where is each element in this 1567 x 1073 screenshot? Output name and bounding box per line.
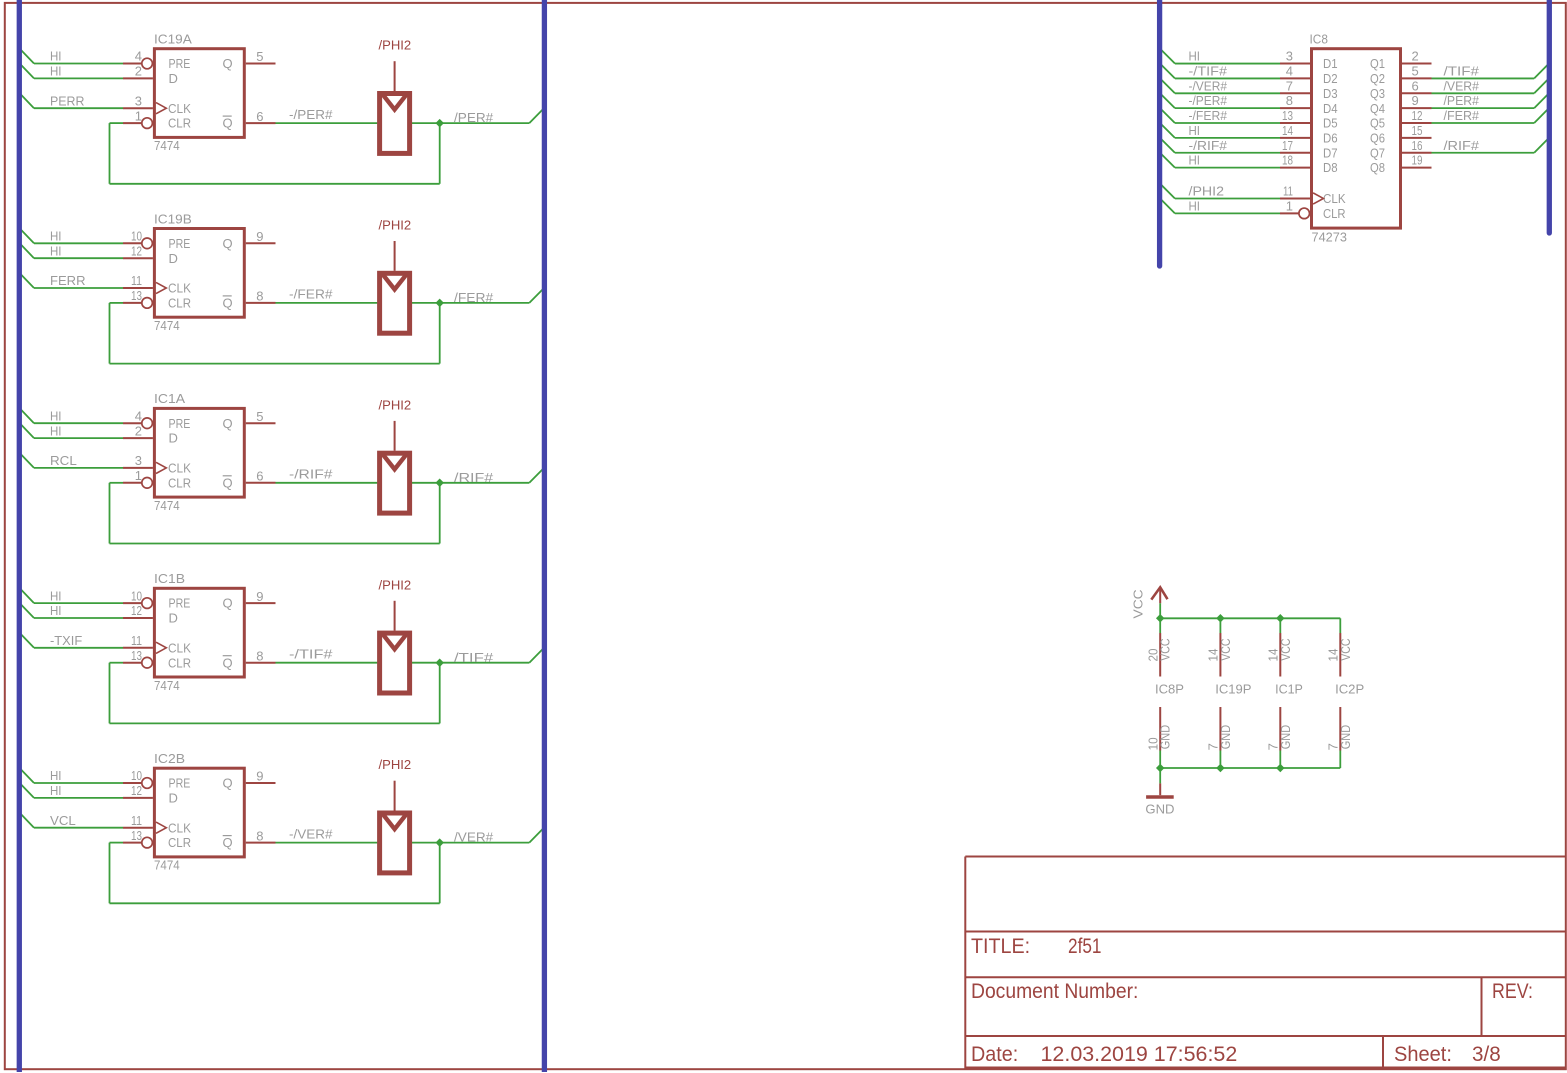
svg-text:CLK: CLK	[1323, 191, 1346, 206]
svg-text:/VER#: /VER#	[1444, 78, 1480, 93]
svg-text:/RIF#: /RIF#	[454, 470, 494, 485]
svg-text:15: 15	[1412, 123, 1423, 138]
svg-text:11: 11	[1283, 183, 1293, 198]
svg-text:12.03.2019 17:56:52: 12.03.2019 17:56:52	[1041, 1043, 1238, 1066]
svg-text:5: 5	[1412, 63, 1419, 78]
svg-text:/FER#: /FER#	[454, 290, 494, 305]
svg-text:16: 16	[1412, 138, 1423, 153]
svg-text:D8: D8	[1323, 160, 1338, 175]
svg-text:3: 3	[135, 93, 142, 108]
svg-text:-/FER#: -/FER#	[1189, 108, 1228, 123]
svg-text:PRE: PRE	[169, 416, 191, 431]
svg-text:6: 6	[256, 469, 263, 484]
svg-text:1: 1	[1286, 198, 1293, 213]
svg-text:14: 14	[1282, 123, 1293, 138]
svg-text:HI: HI	[50, 64, 62, 79]
svg-text:13: 13	[131, 288, 142, 303]
svg-text:1: 1	[135, 108, 142, 123]
svg-text:HI: HI	[50, 49, 62, 64]
svg-text:REV:: REV:	[1492, 980, 1533, 1003]
svg-text:GND: GND	[1158, 725, 1173, 749]
svg-text:/FER#: /FER#	[1444, 108, 1480, 123]
svg-text:Q: Q	[223, 655, 233, 670]
svg-text:HI: HI	[50, 768, 62, 783]
svg-text:13: 13	[131, 828, 142, 843]
svg-text:Q7: Q7	[1370, 145, 1385, 160]
svg-text:IC19A: IC19A	[154, 32, 192, 47]
svg-text:Q6: Q6	[1370, 131, 1385, 146]
svg-text:9: 9	[256, 769, 263, 784]
svg-text:13: 13	[1282, 108, 1293, 123]
svg-text:Q1: Q1	[1370, 56, 1385, 71]
svg-text:Q: Q	[223, 776, 233, 791]
svg-text:-/FER#: -/FER#	[289, 287, 333, 302]
svg-text:13: 13	[131, 648, 142, 663]
svg-text:CLR: CLR	[168, 475, 191, 490]
svg-text:HI: HI	[1189, 198, 1201, 213]
svg-text:10: 10	[131, 229, 142, 244]
svg-text:-/VER#: -/VER#	[289, 826, 333, 841]
svg-text:GND: GND	[1278, 725, 1293, 749]
svg-text:Document Number:: Document Number:	[971, 980, 1138, 1003]
svg-text:HI: HI	[1189, 153, 1201, 168]
svg-text:D: D	[169, 431, 178, 446]
svg-text:IC1A: IC1A	[154, 391, 185, 406]
svg-text:/VER#: /VER#	[454, 830, 494, 845]
svg-text:D7: D7	[1323, 145, 1338, 160]
svg-text:10: 10	[131, 588, 142, 603]
svg-text:6: 6	[1412, 78, 1419, 93]
svg-text:HI: HI	[50, 588, 62, 603]
svg-text:TITLE:: TITLE:	[971, 935, 1030, 958]
svg-text:8: 8	[256, 828, 263, 843]
svg-text:IC19P: IC19P	[1215, 682, 1251, 697]
svg-text:HI: HI	[50, 243, 62, 258]
svg-text:IC8: IC8	[1310, 32, 1328, 47]
svg-text:CLK: CLK	[168, 281, 191, 296]
svg-text:D: D	[169, 791, 178, 806]
svg-text:HI: HI	[50, 783, 62, 798]
svg-text:CLK: CLK	[168, 820, 191, 835]
svg-text:74273: 74273	[1312, 229, 1347, 244]
svg-text:7: 7	[1286, 78, 1293, 93]
svg-text:FERR: FERR	[50, 273, 86, 288]
svg-text:/TIF#: /TIF#	[1444, 63, 1480, 78]
svg-text:8: 8	[256, 648, 263, 663]
svg-text:/PHI2: /PHI2	[379, 218, 412, 233]
svg-text:VCC: VCC	[1338, 639, 1353, 661]
svg-text:17: 17	[1282, 138, 1293, 153]
svg-text:9: 9	[256, 229, 263, 244]
svg-text:/TIF#: /TIF#	[454, 650, 494, 665]
svg-text:/PHI2: /PHI2	[1189, 183, 1225, 198]
svg-text:Q8: Q8	[1370, 160, 1385, 175]
svg-text:-/PER#: -/PER#	[1189, 93, 1228, 108]
svg-text:D2: D2	[1323, 71, 1338, 86]
svg-text:/PHI2: /PHI2	[379, 757, 412, 772]
svg-text:4: 4	[135, 49, 142, 64]
svg-text:Q: Q	[223, 56, 233, 71]
svg-text:CLR: CLR	[1323, 206, 1346, 221]
svg-text:18: 18	[1282, 153, 1293, 168]
svg-text:CLR: CLR	[168, 655, 191, 670]
svg-text:VCC: VCC	[1278, 639, 1293, 661]
svg-text:2: 2	[135, 64, 142, 79]
svg-text:Q: Q	[223, 116, 233, 131]
svg-text:Q: Q	[223, 236, 233, 251]
svg-text:11: 11	[131, 273, 142, 288]
svg-text:Q: Q	[223, 475, 233, 490]
svg-text:-/VER#: -/VER#	[1189, 78, 1228, 93]
svg-text:HI: HI	[1189, 49, 1201, 64]
svg-text:PRE: PRE	[169, 56, 191, 71]
svg-text:-/TIF#: -/TIF#	[289, 646, 333, 661]
svg-text:-TXIF: -TXIF	[50, 633, 82, 648]
svg-text:Q5: Q5	[1370, 116, 1385, 131]
svg-text:IC19B: IC19B	[154, 211, 192, 226]
svg-text:IC2B: IC2B	[154, 751, 185, 766]
svg-text:8: 8	[1286, 93, 1293, 108]
svg-text:D6: D6	[1323, 131, 1338, 146]
svg-text:12: 12	[131, 783, 142, 798]
svg-text:HI: HI	[50, 423, 62, 438]
svg-text:CLR: CLR	[168, 835, 191, 850]
svg-text:VCC: VCC	[1218, 639, 1233, 661]
svg-text:D: D	[169, 71, 178, 86]
svg-text:Q: Q	[223, 596, 233, 611]
svg-text:PRE: PRE	[169, 596, 191, 611]
svg-text:5: 5	[256, 409, 263, 424]
svg-text:VCL: VCL	[50, 813, 76, 828]
svg-text:3/8: 3/8	[1472, 1043, 1501, 1066]
svg-text:HI: HI	[50, 408, 62, 423]
svg-text:19: 19	[1412, 153, 1423, 168]
svg-text:Q2: Q2	[1370, 71, 1385, 86]
svg-text:/RIF#: /RIF#	[1444, 138, 1480, 153]
svg-text:3: 3	[135, 453, 142, 468]
svg-text:/PHI2: /PHI2	[379, 38, 412, 53]
svg-text:D3: D3	[1323, 86, 1338, 101]
svg-text:RCL: RCL	[50, 453, 77, 468]
svg-text:7474: 7474	[154, 498, 180, 513]
svg-text:GND: GND	[1338, 725, 1353, 749]
svg-text:CLR: CLR	[168, 116, 191, 131]
svg-text:D4: D4	[1323, 101, 1338, 116]
svg-text:HI: HI	[50, 603, 62, 618]
svg-text:GND: GND	[1218, 725, 1233, 749]
svg-text:-/PER#: -/PER#	[289, 107, 333, 122]
svg-text:CLK: CLK	[168, 640, 191, 655]
svg-text:PERR: PERR	[50, 93, 85, 108]
svg-text:7474: 7474	[154, 678, 180, 693]
svg-text:Date:: Date:	[971, 1043, 1018, 1066]
svg-text:IC1P: IC1P	[1275, 682, 1303, 697]
svg-text:PRE: PRE	[169, 776, 191, 791]
svg-text:IC1B: IC1B	[154, 571, 185, 586]
svg-text:12: 12	[131, 603, 142, 618]
svg-text:6: 6	[256, 109, 263, 124]
svg-text:VCC: VCC	[1158, 639, 1173, 661]
svg-text:12: 12	[131, 243, 142, 258]
svg-text:7474: 7474	[154, 318, 180, 333]
svg-text:1: 1	[135, 468, 142, 483]
svg-text:IC8P: IC8P	[1155, 682, 1184, 697]
svg-text:7474: 7474	[154, 138, 180, 153]
svg-text:5: 5	[256, 49, 263, 64]
svg-text:CLR: CLR	[168, 296, 191, 311]
svg-text:2f51: 2f51	[1068, 935, 1102, 958]
svg-text:HI: HI	[1189, 123, 1201, 138]
svg-text:9: 9	[256, 589, 263, 604]
svg-text:4: 4	[135, 408, 142, 423]
svg-text:Q4: Q4	[1370, 101, 1385, 116]
svg-text:D: D	[169, 611, 178, 626]
svg-text:HI: HI	[50, 229, 62, 244]
svg-text:D5: D5	[1323, 116, 1338, 131]
svg-text:CLK: CLK	[168, 101, 191, 116]
svg-text:Sheet:: Sheet:	[1394, 1043, 1452, 1066]
svg-text:Q: Q	[223, 835, 233, 850]
svg-text:GND: GND	[1145, 801, 1174, 816]
svg-text:8: 8	[256, 289, 263, 304]
svg-text:PRE: PRE	[169, 236, 191, 251]
svg-text:11: 11	[131, 813, 142, 828]
svg-text:Q3: Q3	[1370, 86, 1385, 101]
svg-text:2: 2	[1412, 49, 1419, 64]
svg-text:/PER#: /PER#	[454, 110, 494, 125]
svg-text:D: D	[169, 251, 178, 266]
svg-text:-/RIF#: -/RIF#	[1189, 138, 1228, 153]
svg-text:/PHI2: /PHI2	[379, 397, 412, 412]
svg-text:3: 3	[1286, 49, 1293, 64]
svg-text:Q: Q	[223, 296, 233, 311]
svg-text:7474: 7474	[154, 858, 180, 873]
svg-text:12: 12	[1412, 108, 1423, 123]
svg-text:IC2P: IC2P	[1335, 682, 1364, 697]
svg-text:Q: Q	[223, 416, 233, 431]
svg-text:-/RIF#: -/RIF#	[289, 467, 333, 482]
svg-text:10: 10	[131, 768, 142, 783]
svg-text:4: 4	[1286, 63, 1293, 78]
svg-text:-/TIF#: -/TIF#	[1189, 63, 1228, 78]
svg-text:2: 2	[135, 423, 142, 438]
svg-text:9: 9	[1412, 93, 1419, 108]
svg-text:11: 11	[131, 633, 142, 648]
svg-text:CLK: CLK	[168, 461, 191, 476]
svg-text:/PER#: /PER#	[1444, 93, 1480, 108]
svg-text:D1: D1	[1323, 56, 1338, 71]
svg-text:VCC: VCC	[1131, 589, 1146, 618]
svg-text:/PHI2: /PHI2	[379, 577, 412, 592]
